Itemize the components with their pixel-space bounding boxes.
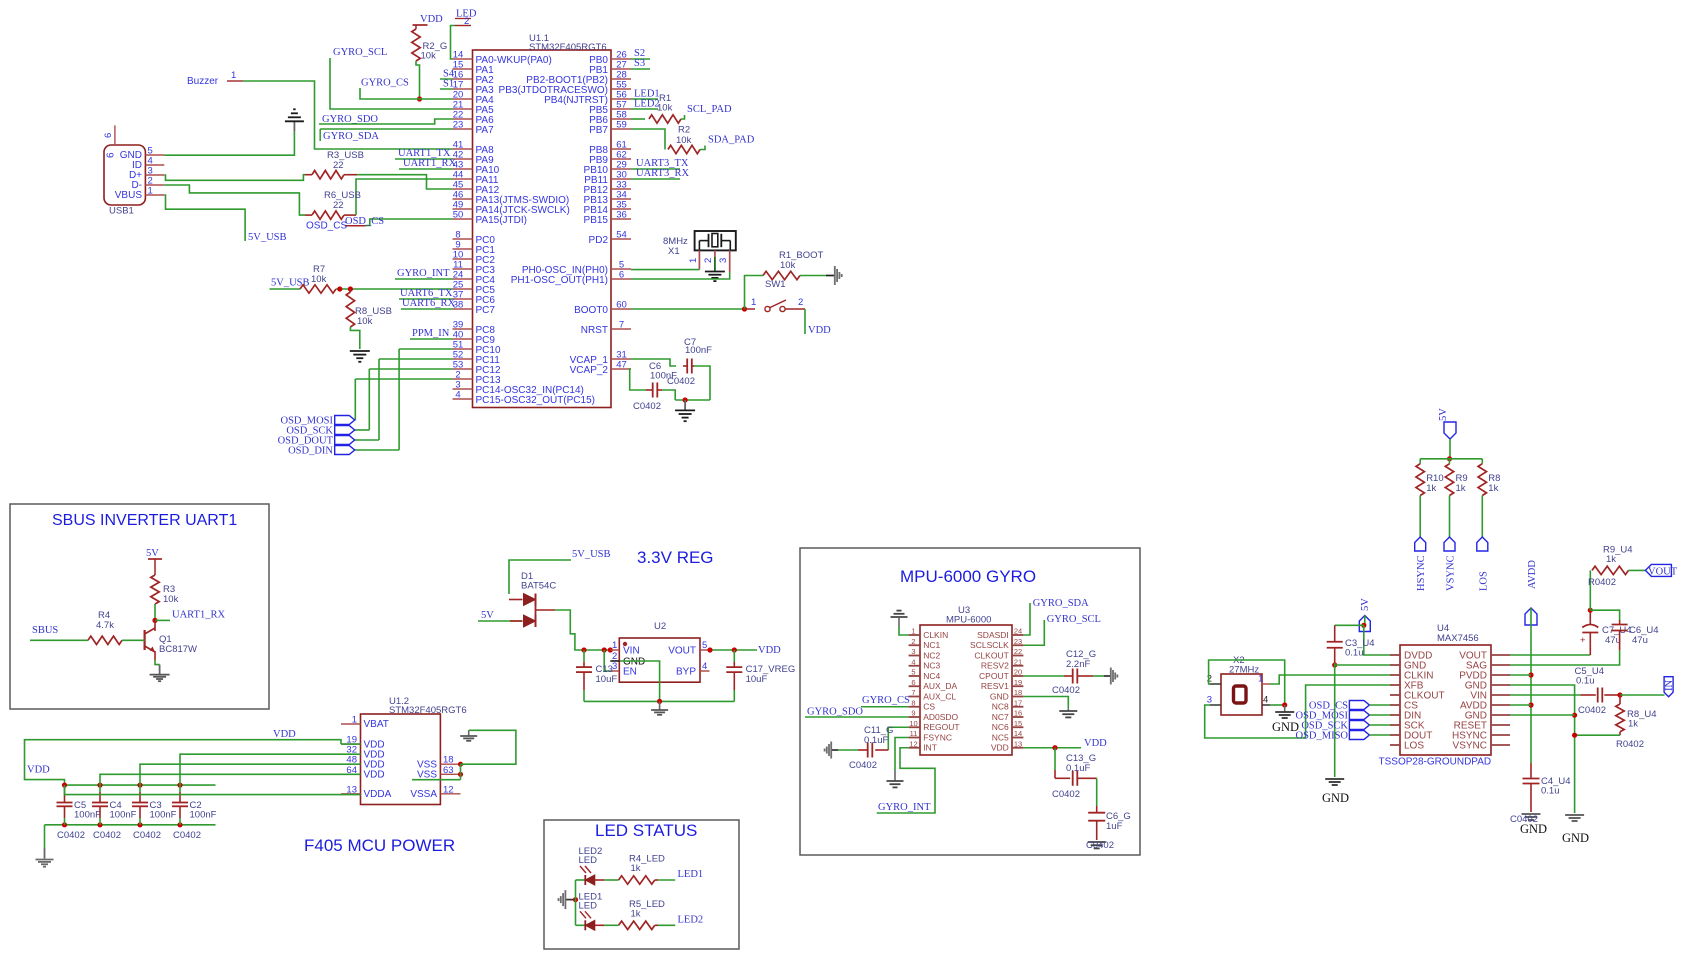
svg-text:2.2nF: 2.2nF (1066, 659, 1090, 670)
svg-text:5V_USB: 5V_USB (572, 549, 611, 560)
svg-text:VDD: VDD (420, 14, 443, 25)
svg-text:1k: 1k (631, 908, 641, 919)
svg-text:22: 22 (333, 200, 344, 211)
svg-text:C0402: C0402 (133, 830, 161, 841)
svg-text:5V: 5V (481, 610, 494, 621)
svg-text:GYRO_INT: GYRO_INT (397, 268, 450, 279)
svg-text:+: + (1580, 635, 1586, 646)
svg-text:13: 13 (346, 784, 357, 795)
svg-text:VSYNC: VSYNC (1453, 741, 1487, 752)
svg-text:EN: EN (623, 667, 637, 678)
svg-text:10k: 10k (357, 316, 373, 327)
svg-text:NC5: NC5 (992, 732, 1009, 742)
svg-text:4: 4 (455, 390, 460, 401)
svg-text:PB15: PB15 (584, 215, 609, 226)
svg-text:GYRO_SDA: GYRO_SDA (323, 131, 379, 142)
svg-text:0.1u: 0.1u (1345, 648, 1364, 659)
svg-text:S3: S3 (634, 58, 645, 69)
svg-text:60: 60 (616, 300, 627, 311)
svg-text:C0402: C0402 (1510, 814, 1538, 825)
svg-text:27MHz: 27MHz (1229, 665, 1259, 676)
svg-text:4: 4 (911, 657, 915, 666)
svg-text:47u: 47u (1632, 635, 1648, 646)
svg-text:0.1u: 0.1u (1576, 676, 1595, 687)
svg-text:LOS: LOS (1404, 741, 1424, 752)
svg-text:R2: R2 (678, 125, 690, 136)
svg-text:63: 63 (443, 765, 454, 776)
svg-text:NRST: NRST (581, 325, 608, 336)
svg-text:10k: 10k (676, 135, 692, 146)
svg-text:8: 8 (911, 698, 915, 707)
svg-text:LOS: LOS (1478, 571, 1489, 591)
svg-text:22: 22 (1014, 647, 1022, 656)
svg-text:OSD_CS: OSD_CS (306, 221, 347, 232)
svg-text:4.7k: 4.7k (96, 620, 114, 631)
svg-text:1: 1 (911, 627, 915, 636)
svg-text:OSD_MISO: OSD_MISO (1295, 731, 1348, 742)
svg-text:PH1-OSC_OUT(PH1): PH1-OSC_OUT(PH1) (511, 275, 608, 286)
svg-text:BOOT0: BOOT0 (574, 305, 608, 316)
svg-text:LED2: LED2 (678, 914, 704, 925)
svg-text:GYRO_SCL: GYRO_SCL (333, 47, 387, 58)
svg-text:Buzzer: Buzzer (187, 76, 219, 87)
svg-text:10: 10 (909, 719, 917, 728)
svg-text:MPU-6000 GYRO: MPU-6000 GYRO (900, 567, 1036, 586)
svg-text:VDD: VDD (364, 770, 385, 781)
svg-text:12: 12 (909, 739, 917, 748)
svg-text:19: 19 (1014, 678, 1022, 687)
svg-text:VDD: VDD (991, 743, 1009, 753)
svg-text:C0402: C0402 (57, 830, 85, 841)
svg-text:AUX_DA: AUX_DA (923, 681, 957, 691)
svg-text:SCL_PAD: SCL_PAD (687, 104, 732, 115)
svg-text:GYRO_INT: GYRO_INT (878, 802, 931, 813)
svg-text:C0402: C0402 (849, 760, 877, 771)
svg-text:STM32F405RGT6: STM32F405RGT6 (529, 42, 607, 53)
svg-text:13: 13 (1014, 739, 1022, 748)
svg-text:23: 23 (1014, 637, 1022, 646)
svg-text:100nF: 100nF (650, 371, 677, 382)
svg-text:2: 2 (798, 297, 803, 308)
svg-text:59: 59 (616, 120, 627, 131)
svg-text:R0402: R0402 (1588, 577, 1616, 588)
svg-text:36: 36 (616, 210, 627, 221)
svg-text:SDASDI: SDASDI (977, 630, 1009, 640)
svg-text:NC4: NC4 (923, 671, 940, 681)
svg-text:VSSA: VSSA (410, 789, 437, 800)
svg-text:VDDA: VDDA (364, 789, 392, 800)
svg-text:C0402: C0402 (1052, 789, 1080, 800)
svg-text:3: 3 (911, 647, 915, 656)
svg-text:PC15-OSC32_OUT(PC15): PC15-OSC32_OUT(PC15) (476, 395, 595, 406)
svg-text:1: 1 (612, 640, 617, 651)
svg-text:IN: IN (1664, 680, 1675, 691)
svg-text:TSSOP28-GROUNDPAD: TSSOP28-GROUNDPAD (1379, 757, 1492, 768)
svg-text:R0402: R0402 (1616, 739, 1644, 750)
svg-text:VSYNC: VSYNC (1446, 555, 1457, 591)
svg-text:54: 54 (616, 230, 627, 241)
svg-text:BC817W: BC817W (159, 644, 197, 655)
svg-text:X1: X1 (668, 246, 680, 257)
svg-text:1: 1 (352, 715, 357, 726)
svg-text:100nF: 100nF (190, 810, 217, 821)
svg-text:1: 1 (231, 70, 236, 81)
svg-text:VDD: VDD (27, 765, 50, 776)
svg-text:AD0SDO: AD0SDO (923, 712, 958, 722)
svg-text:16: 16 (1014, 709, 1022, 718)
svg-text:47u: 47u (1605, 635, 1621, 646)
svg-text:17: 17 (1014, 698, 1022, 707)
svg-text:1: 1 (751, 297, 756, 308)
svg-text:LED: LED (579, 900, 598, 911)
svg-text:6: 6 (106, 152, 117, 158)
svg-text:UART1_RX: UART1_RX (172, 610, 225, 621)
svg-text:PA7: PA7 (476, 125, 495, 136)
svg-text:C0402: C0402 (1578, 705, 1606, 716)
svg-text:UART3_RX: UART3_RX (636, 168, 689, 179)
svg-text:AVDD: AVDD (1527, 560, 1538, 589)
svg-text:100nF: 100nF (150, 810, 177, 821)
svg-text:UART6_RX: UART6_RX (402, 298, 455, 309)
svg-text:RESV2: RESV2 (981, 661, 1009, 671)
svg-text:18: 18 (1014, 688, 1022, 697)
svg-text:9: 9 (911, 709, 915, 718)
svg-text:CS: CS (923, 702, 935, 712)
svg-text:GYRO_CS: GYRO_CS (361, 78, 409, 89)
svg-text:10k: 10k (657, 103, 673, 114)
svg-text:3.3V REG: 3.3V REG (637, 548, 714, 567)
svg-text:1k: 1k (1426, 483, 1436, 494)
svg-text:FSYNC: FSYNC (923, 732, 952, 742)
svg-text:GND: GND (1322, 791, 1349, 805)
svg-text:VOUT: VOUT (1648, 567, 1678, 578)
svg-text:1: 1 (688, 258, 699, 263)
svg-text:21: 21 (1014, 657, 1022, 666)
svg-text:10k: 10k (421, 51, 437, 62)
svg-text:U2: U2 (654, 621, 666, 632)
svg-text:5V: 5V (146, 548, 159, 559)
svg-text:1uF: 1uF (1106, 821, 1123, 832)
svg-text:INT: INT (923, 743, 937, 753)
svg-text:GND: GND (1562, 831, 1589, 845)
svg-text:10k: 10k (163, 594, 179, 605)
svg-text:23: 23 (453, 120, 464, 131)
svg-text:PB7: PB7 (589, 125, 608, 136)
svg-text:VBAT: VBAT (364, 719, 389, 730)
svg-text:CLKOUT: CLKOUT (974, 650, 1008, 660)
svg-text:BAT54C: BAT54C (521, 581, 556, 592)
svg-text:AUX_CL: AUX_CL (923, 691, 956, 701)
svg-text:C0402: C0402 (1086, 840, 1114, 851)
svg-text:NC2: NC2 (923, 650, 940, 660)
svg-text:5V_USB: 5V_USB (248, 232, 287, 243)
svg-text:6: 6 (103, 133, 114, 138)
svg-text:MAX7456: MAX7456 (1437, 633, 1479, 644)
svg-text:5V: 5V (1438, 408, 1449, 421)
svg-text:10uF: 10uF (596, 674, 618, 685)
svg-text:SBUS INVERTER UART1: SBUS INVERTER UART1 (52, 512, 237, 529)
svg-text:1k: 1k (1628, 719, 1638, 730)
svg-text:15: 15 (1014, 719, 1022, 728)
svg-text:UART1_RX: UART1_RX (403, 158, 456, 169)
svg-text:1k: 1k (631, 863, 641, 874)
svg-text:6: 6 (619, 270, 624, 281)
svg-text:GND: GND (990, 691, 1009, 701)
svg-text:VBUS: VBUS (115, 190, 143, 201)
svg-text:VDD: VDD (273, 729, 296, 740)
svg-text:SW1: SW1 (765, 279, 786, 290)
svg-text:C0402: C0402 (93, 830, 121, 841)
svg-text:7: 7 (619, 320, 624, 331)
svg-text:5: 5 (702, 640, 707, 651)
svg-text:47: 47 (616, 360, 627, 371)
svg-text:C0402: C0402 (173, 830, 201, 841)
svg-text:14: 14 (1014, 729, 1022, 738)
svg-text:2: 2 (911, 637, 915, 646)
svg-text:10k: 10k (311, 274, 327, 285)
svg-text:NC8: NC8 (992, 702, 1009, 712)
svg-text:VIN: VIN (623, 646, 640, 657)
svg-text:GYRO_SDA: GYRO_SDA (1033, 598, 1089, 609)
svg-text:RESV1: RESV1 (981, 681, 1009, 691)
svg-text:VCAP_2: VCAP_2 (570, 365, 609, 376)
svg-text:S1: S1 (443, 79, 454, 90)
svg-text:3: 3 (718, 258, 729, 263)
svg-text:PPM_IN: PPM_IN (412, 328, 450, 339)
svg-text:PC7: PC7 (476, 305, 496, 316)
svg-text:STM32F405RGT6: STM32F405RGT6 (389, 705, 467, 716)
svg-text:C0402: C0402 (1052, 685, 1080, 696)
svg-text:VDD: VDD (808, 325, 831, 336)
svg-text:50: 50 (453, 210, 464, 221)
svg-text:1k: 1k (1456, 483, 1466, 494)
svg-text:4: 4 (702, 661, 707, 672)
svg-text:REGOUT: REGOUT (923, 722, 959, 732)
svg-text:2: 2 (703, 258, 714, 263)
svg-text:1k: 1k (1606, 554, 1616, 565)
svg-text:VSS: VSS (417, 770, 437, 781)
svg-text:100nF: 100nF (110, 810, 137, 821)
svg-text:7: 7 (911, 688, 915, 697)
svg-text:C0402: C0402 (633, 401, 661, 412)
svg-text:PA15(JTDI): PA15(JTDI) (476, 215, 528, 226)
svg-text:GYRO_CS: GYRO_CS (862, 695, 910, 706)
svg-text:VDD: VDD (1084, 738, 1107, 749)
svg-text:10uF: 10uF (746, 674, 768, 685)
svg-text:LED1: LED1 (678, 869, 704, 880)
svg-text:NC7: NC7 (992, 712, 1009, 722)
svg-text:SBUS: SBUS (32, 625, 58, 636)
svg-text:GYRO_SDO: GYRO_SDO (807, 707, 863, 718)
svg-text:USB1: USB1 (109, 206, 134, 217)
svg-text:VDD: VDD (758, 645, 781, 656)
svg-text:NC6: NC6 (992, 722, 1009, 732)
svg-text:F405 MCU POWER: F405 MCU POWER (304, 836, 455, 855)
svg-text:NC1: NC1 (923, 640, 940, 650)
svg-text:0.1u: 0.1u (1541, 786, 1560, 797)
svg-text:OSD_DIN: OSD_DIN (288, 446, 333, 457)
svg-text:LED2: LED2 (634, 99, 660, 110)
svg-text:BYP: BYP (676, 667, 696, 678)
svg-text:5V: 5V (1360, 598, 1371, 611)
svg-text:GYRO_SCL: GYRO_SCL (1047, 614, 1101, 625)
svg-text:0.1uF: 0.1uF (1066, 763, 1090, 774)
svg-text:CLKIN: CLKIN (923, 630, 948, 640)
svg-text:4: 4 (1263, 695, 1268, 706)
svg-text:24: 24 (1014, 627, 1022, 636)
svg-text:11: 11 (910, 729, 918, 738)
svg-text:PD2: PD2 (589, 235, 609, 246)
svg-text:100nF: 100nF (685, 345, 712, 356)
svg-text:HSYNC: HSYNC (1416, 555, 1427, 591)
svg-text:6: 6 (911, 678, 915, 687)
svg-text:LED: LED (579, 855, 598, 866)
svg-text:MPU-6000: MPU-6000 (946, 615, 991, 626)
svg-text:1k: 1k (1488, 483, 1498, 494)
svg-text:12: 12 (443, 784, 454, 795)
svg-text:0.1uF: 0.1uF (864, 735, 888, 746)
svg-text:SDA_PAD: SDA_PAD (708, 135, 755, 146)
svg-text:1: 1 (148, 186, 153, 197)
svg-text:NC3: NC3 (923, 661, 940, 671)
svg-text:SCLSCLK: SCLSCLK (970, 640, 1009, 650)
svg-text:20: 20 (1014, 668, 1022, 677)
svg-text:3: 3 (1207, 695, 1212, 706)
svg-text:10k: 10k (780, 260, 796, 271)
svg-text:CPOUT: CPOUT (979, 671, 1009, 681)
svg-text:5: 5 (911, 668, 915, 677)
svg-text:VOUT: VOUT (668, 646, 696, 657)
svg-text:1: 1 (1258, 674, 1263, 685)
svg-text:100nF: 100nF (74, 810, 101, 821)
svg-text:22: 22 (333, 160, 344, 171)
svg-text:LED STATUS: LED STATUS (595, 821, 697, 840)
